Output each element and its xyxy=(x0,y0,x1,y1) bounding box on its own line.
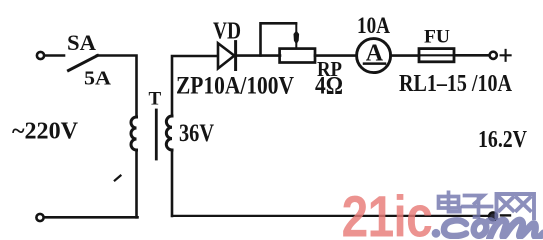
wire xyxy=(172,215,489,217)
label minus xyxy=(501,214,510,216)
watermark dot of .com xyxy=(432,229,441,238)
terminal: DC output minus xyxy=(489,212,497,220)
svg-text:T: T xyxy=(149,88,162,109)
switch SA xyxy=(69,56,98,71)
svg-text:RL1–15 /10A: RL1–15 /10A xyxy=(399,71,513,97)
watermark character zi xyxy=(463,196,492,218)
diode VD xyxy=(218,42,236,70)
transformer T secondary winding xyxy=(166,116,172,150)
terminal: DC output plus xyxy=(490,52,497,59)
wire xyxy=(97,56,137,118)
ammeter A xyxy=(357,39,391,73)
svg-text:ZP10A/100V: ZP10A/100V xyxy=(176,73,294,100)
label plus xyxy=(501,50,511,61)
svg-text:~220V: ~220V xyxy=(12,117,78,144)
svg-text:36V: 36V xyxy=(179,120,214,147)
wire xyxy=(454,54,489,57)
svg-text:A: A xyxy=(366,40,384,66)
wire xyxy=(135,150,138,217)
rheostat RP body xyxy=(280,49,315,63)
wire xyxy=(172,56,218,116)
svg-text:21ic: 21ic xyxy=(342,185,433,239)
stray scan mark xyxy=(115,176,121,181)
wire xyxy=(391,54,419,57)
wire: RP wiper to left terminal xyxy=(261,23,297,55)
transformer T core xyxy=(155,110,158,159)
svg-text:10A: 10A xyxy=(357,13,390,39)
watermark 21ic xyxy=(342,185,433,240)
svg-text:4Ω: 4Ω xyxy=(315,72,343,99)
wire xyxy=(45,54,64,57)
terminal: AC input top xyxy=(37,52,44,59)
svg-text:FU: FU xyxy=(424,26,450,47)
wire xyxy=(171,150,174,216)
wire xyxy=(315,54,356,57)
svg-text:SA: SA xyxy=(67,30,96,55)
terminal: AC input bottom xyxy=(36,214,43,221)
watermark character dian xyxy=(439,192,460,211)
svg-text:VD: VD xyxy=(213,18,241,44)
wire xyxy=(44,216,137,219)
watermark character wang xyxy=(497,194,535,218)
svg-text:5A: 5A xyxy=(84,67,112,89)
rheostat RP wiper arrow xyxy=(294,23,298,48)
fuse FU xyxy=(419,49,454,62)
transformer T primary winding xyxy=(131,117,137,150)
svg-text:16.2V: 16.2V xyxy=(478,126,527,153)
watermark script com xyxy=(444,219,543,238)
wire xyxy=(236,54,280,57)
